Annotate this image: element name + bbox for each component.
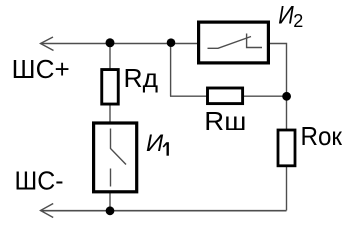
svg-text:ШС-: ШС- — [15, 166, 64, 196]
svg-text:Rш: Rш — [204, 106, 246, 136]
svg-text:2: 2 — [293, 11, 303, 31]
svg-text:И: И — [278, 1, 294, 29]
svg-text:ШС+: ШС+ — [12, 54, 70, 84]
svg-text:Rок: Rок — [301, 121, 343, 151]
svg-text:И: И — [146, 130, 164, 157]
svg-text:Rд: Rд — [124, 63, 159, 93]
